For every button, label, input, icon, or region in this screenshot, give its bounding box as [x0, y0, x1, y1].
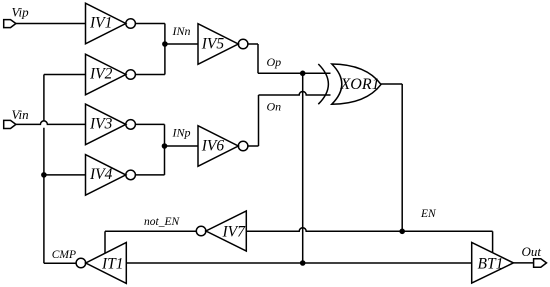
output pin Out: [534, 259, 547, 267]
node INp junction dot: [162, 143, 168, 149]
inverter IV3: [86, 104, 136, 145]
wire Vin to IV3 input with hop over CMP vertical: [16, 121, 86, 125]
node EN junction dot: [399, 229, 405, 235]
svg-text:IV3: IV3: [89, 116, 113, 133]
svg-text:On: On: [267, 99, 282, 113]
wire EN down to BT1 enable: [492, 231, 494, 253]
svg-text:INn: INn: [172, 24, 191, 38]
node INn junction dot: [162, 41, 168, 47]
wire IV6 output: [248, 145, 259, 147]
wire IV2 input stub: [44, 74, 86, 76]
wire CMP horizontal to IT1 output bubble: [44, 262, 76, 264]
svg-text:EN: EN: [420, 208, 437, 220]
wire vertical XOR output down to EN: [401, 84, 403, 231]
svg-text:not_EN: not_EN: [144, 216, 180, 228]
inverter IV2: [86, 54, 136, 95]
wire XOR1 output: [381, 83, 402, 85]
svg-text:IV2: IV2: [89, 66, 113, 83]
input pin Vin: [4, 120, 16, 128]
wire vertical up to On: [258, 95, 260, 146]
wire On to XOR1 bottom input with hop: [259, 92, 331, 95]
wire vertical down to Op: [257, 44, 259, 73]
wire Op to XOR1 top input: [258, 72, 331, 74]
wire IV2 output: [135, 74, 165, 76]
tristate inverter IT1: [76, 243, 126, 284]
wire IV3 output: [135, 123, 164, 125]
inverter IV6: [198, 126, 248, 167]
svg-text:CMP: CMP: [52, 249, 76, 261]
svg-text:Vip: Vip: [12, 5, 30, 20]
wire BT1 output to Out pin: [513, 262, 533, 264]
svg-text:IV1: IV1: [89, 15, 112, 32]
wire vertical Op down to output bus with hops: [302, 73, 304, 263]
svg-text:IV7: IV7: [222, 224, 247, 241]
inverter IV4: [86, 155, 136, 196]
svg-text:XOR1: XOR1: [340, 76, 380, 93]
svg-text:IV6: IV6: [201, 138, 225, 155]
wire EN to IV7 input with hop: [246, 228, 492, 232]
node Op junction dot: [300, 71, 306, 77]
inverter IV5: [198, 24, 248, 65]
svg-text:Vin: Vin: [12, 107, 29, 122]
xor gate XOR1: [318, 64, 381, 104]
wire IV4 output: [135, 174, 164, 176]
wire IV4 input: [44, 174, 86, 176]
wire INp to IV6 input: [165, 145, 199, 147]
svg-text:Op: Op: [267, 55, 282, 69]
wire not_EN down to IT1 enable: [104, 231, 106, 253]
node IV4 input junction dot: [41, 172, 47, 178]
inverter IV7: [196, 211, 246, 251]
wire vertical IV1-IV2 outputs: [164, 24, 166, 75]
svg-text:IV4: IV4: [89, 166, 113, 183]
wire Vip to IV1 input: [16, 23, 86, 25]
inverter IV1: [86, 3, 136, 44]
svg-text:IV5: IV5: [201, 36, 225, 53]
wire IV1 output to corner: [135, 23, 165, 25]
wire not_EN from IV7 output: [105, 230, 196, 232]
svg-text:IT1: IT1: [101, 256, 124, 273]
node output bus junction dot: [300, 260, 306, 266]
wire INn to IV5 input: [165, 43, 198, 45]
svg-text:Out: Out: [522, 244, 542, 259]
input pin Vip: [4, 20, 16, 28]
tristate buffer BT1: [472, 242, 514, 283]
svg-text:BT1: BT1: [478, 256, 504, 273]
svg-text:INp: INp: [172, 125, 191, 139]
wire IV5 output: [248, 43, 258, 45]
wire vertical IV3-IV4 outputs: [164, 124, 166, 174]
wire output bus IT1 input to BT1 input: [126, 262, 471, 264]
wire CMP vertical from IV2 input down to CMP corner: [43, 75, 45, 264]
